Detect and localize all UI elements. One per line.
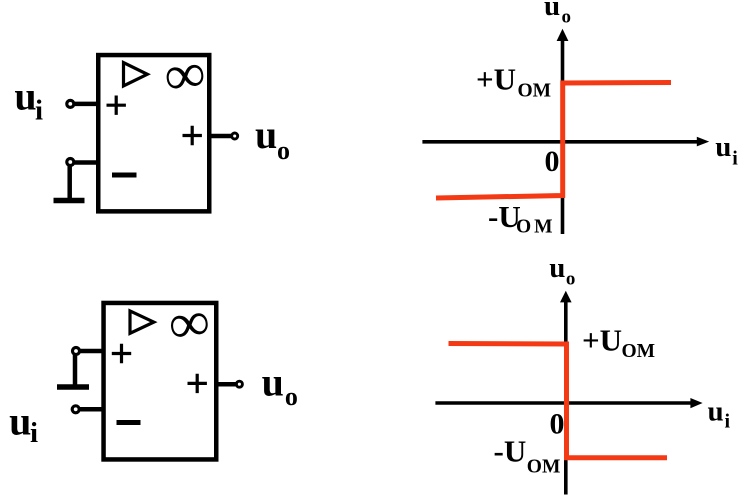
wire: down to ground [67, 166, 72, 200]
svg-text:0: 0 [545, 145, 560, 178]
op-amp U1 output polarity + [183, 126, 202, 145]
wire: u_i terminal to U2 - input [80, 407, 105, 412]
terminal: u_i input [67, 100, 74, 107]
wire: U1 output [209, 134, 232, 139]
svg-text:u: u [9, 398, 31, 443]
svg-text:∞: ∞ [161, 41, 209, 108]
svg-text:u: u [708, 395, 724, 427]
terminal: U1 - input junction [67, 159, 74, 166]
graph 1 axis u_i (horizontal) [422, 137, 709, 147]
graph 2 axis u_i (horizontal) [435, 398, 702, 408]
ground [57, 384, 89, 390]
svg-text:i: i [732, 148, 738, 170]
svg-text:u: u [262, 359, 284, 404]
svg-text:i: i [35, 94, 43, 126]
svg-text:OM: OM [516, 217, 556, 238]
terminal: U2 + input junction [73, 348, 80, 355]
op-amp U1 gain triangle [124, 63, 148, 86]
op-amp U2 non-inverting input + [112, 344, 131, 363]
wire: u_i terminal to U1 + input [74, 102, 100, 107]
svg-text:OM: OM [518, 81, 552, 102]
svg-text:u: u [549, 252, 565, 284]
svg-text:u: u [544, 0, 560, 22]
svg-text:-U: -U [494, 434, 527, 469]
svg-text:u: u [14, 74, 36, 119]
svg-text:i: i [725, 411, 731, 433]
terminal: u_o output [232, 133, 238, 139]
svg-text:OM: OM [527, 456, 561, 477]
graph 2 axis u_o (vertical) [560, 291, 572, 495]
svg-text:0: 0 [550, 408, 565, 441]
graph 1 axis u_o (vertical) [557, 29, 569, 234]
svg-text:+U: +U [476, 62, 516, 97]
op-amp U2 output polarity + [188, 374, 207, 393]
svg-text:o: o [285, 382, 298, 411]
wire: ground terminal to U1 - input [74, 160, 100, 165]
ground [54, 198, 85, 204]
graph 2 transfer curve (red step) [449, 344, 668, 458]
terminal: u_o output [236, 381, 242, 387]
op-amp U1 body [98, 55, 209, 211]
op-amp U2 infinite-gain symbol [165, 290, 213, 357]
op-amp U1 inverting input - [112, 173, 137, 178]
svg-text:o: o [566, 269, 576, 290]
wire: ground terminal to U2 + input [80, 349, 105, 354]
op-amp U2 inverting input - [117, 420, 141, 425]
op-amp U1 infinite-gain symbol [161, 41, 209, 108]
wire: down to ground [73, 355, 78, 387]
graph 1 transfer curve (red step) [436, 83, 671, 199]
op-amp U1 non-inverting input + [107, 96, 126, 115]
svg-text:u: u [255, 112, 277, 157]
op-amp U2 gain triangle [130, 311, 154, 333]
svg-text:o: o [562, 7, 572, 28]
op-amp U2 body [104, 303, 217, 460]
svg-text:∞: ∞ [165, 290, 213, 357]
svg-text:u: u [715, 131, 731, 163]
svg-text:+U: +U [582, 323, 622, 358]
svg-text:OM: OM [622, 341, 656, 362]
svg-text:o: o [277, 136, 290, 165]
terminal: u_i input [72, 406, 79, 413]
svg-text:i: i [30, 417, 38, 449]
wire: U2 output [216, 382, 236, 387]
